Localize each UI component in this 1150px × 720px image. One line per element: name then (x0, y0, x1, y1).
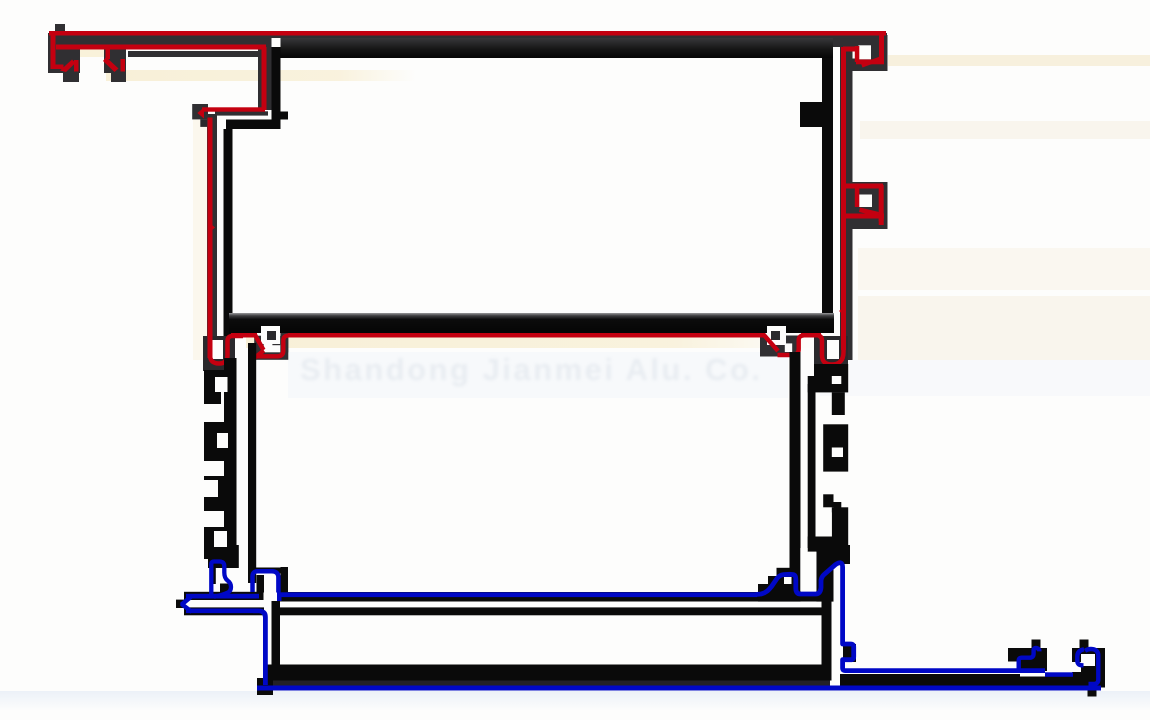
small square above band left (55, 24, 65, 34)
inner red line under band (126, 45, 266, 50)
right mid hook notch (859, 195, 873, 208)
hook2 right strip (281, 567, 289, 593)
left dip dark square (272, 336, 280, 345)
step left end dark block (192, 104, 208, 119)
sill top band right segment (279, 592, 830, 602)
right dip dark square (775, 336, 785, 344)
right plus-stub (823, 494, 833, 507)
left gasket mass notch (215, 377, 228, 392)
right white sq2 (832, 448, 843, 458)
faint beige wash right middle (858, 248, 1150, 290)
right lower block (832, 507, 848, 536)
dark gray frame cores (48, 24, 888, 371)
cap hook 2 foot (111, 73, 126, 82)
light blue wash under middle bar (288, 352, 788, 398)
beige strip under top-left inner red line (106, 70, 416, 81)
middle bar notch left (261, 326, 280, 344)
hook2 top black (248, 568, 288, 574)
right hook 1 tab (1032, 640, 1041, 649)
white channel above dip (800, 548, 807, 591)
faint beige patch right upper (860, 121, 1150, 139)
left cap red vertical (51, 33, 56, 69)
cap hook 2 (104, 46, 126, 73)
right big block (823, 424, 848, 471)
right row2 bar left bit (808, 384, 815, 392)
right mid squiggle blob (814, 336, 848, 367)
left sash bottom mass (208, 545, 239, 568)
bottom-right mass top (816, 545, 850, 564)
right hook 2 blue S right vertical (1085, 649, 1098, 684)
right dip squiggle (764, 335, 804, 356)
left mid squiggle blob (203, 336, 235, 371)
left cap column (48, 33, 61, 73)
right frame red wall (841, 47, 846, 350)
right mid hook outer vertical (879, 185, 884, 221)
sill black (176, 548, 1105, 697)
right mid hook diagonal (859, 208, 879, 217)
right hook 2 blue S left arc (1077, 649, 1084, 665)
step left arrow (197, 108, 204, 119)
dark strip under inner red line (128, 51, 268, 57)
left wall direction tick (208, 221, 216, 234)
right outer leg red stub (879, 216, 884, 225)
left dip squiggle (254, 334, 289, 358)
faint beige column left of red vertical (193, 112, 207, 360)
step box dark vertical (258, 47, 276, 110)
sill box blue left wall (253, 609, 268, 686)
left frame red wall (208, 118, 213, 359)
sash T bar (226, 120, 280, 130)
bottom sash columns (204, 343, 850, 602)
right top hook outer vertical (879, 33, 884, 63)
inner red line over cap (56, 45, 130, 50)
right row1 mass (814, 364, 848, 392)
sash right wall (822, 58, 833, 328)
red frame outline (49, 31, 886, 365)
sill box right wall (822, 601, 832, 681)
right stub (832, 392, 845, 415)
right top hook notch left (855, 46, 860, 62)
right top hook red inner h (843, 47, 859, 52)
step red horizontal (202, 107, 265, 111)
hook2 red diagonal barb (103, 57, 119, 72)
long red line under middle bar (segments) (231, 333, 257, 338)
black square at box bottom-left corner (257, 678, 273, 695)
right mid hook dark (846, 182, 888, 229)
black inside S curl (220, 584, 231, 594)
sill box bottom bar (264, 665, 830, 681)
left gasket mass (204, 370, 235, 392)
beige strip under middle red line (246, 337, 816, 348)
right squiggle U (818, 336, 844, 365)
right full bar low (808, 537, 849, 552)
top band red line (49, 31, 886, 36)
svg-text:Shandong Jianmei Alu. Co.: Shandong Jianmei Alu. Co. (300, 352, 760, 387)
sash right tab (800, 102, 822, 127)
light blue strip at bottom (0, 691, 1150, 711)
hook1 red inner vertical (74, 60, 79, 72)
beige strip right of top band (888, 55, 1150, 66)
right white pocket low (816, 512, 832, 536)
sash left upper wall (272, 47, 281, 129)
hook2 red inner vertical (121, 59, 126, 72)
left squiggle white inset (212, 340, 223, 359)
right sash outer wall (790, 352, 801, 592)
sill upper band blue left (186, 594, 259, 599)
left dash block 4 (204, 527, 236, 559)
sill upper band left segment (184, 592, 264, 600)
sill top blue corner at box wall (277, 592, 282, 601)
sill beak blue chevron (180, 594, 193, 613)
right wall direction tick (839, 305, 846, 317)
sill box bottom fade (264, 681, 830, 687)
right inner left strip (808, 376, 816, 552)
step dark horizontal (215, 111, 268, 115)
right dip dark surround (760, 336, 800, 357)
head frame top band (dark core) (48, 33, 887, 47)
sill left flap (184, 607, 264, 615)
sill flap blue line (186, 609, 258, 614)
right dip white notch 2 (785, 343, 792, 352)
middle bar notch right (767, 326, 786, 345)
left dash block 2 (204, 422, 236, 461)
sash top bar (277, 38, 833, 58)
left squiggle U (210, 336, 243, 364)
right mid hook bottom (844, 214, 884, 219)
hook2 left strip (257, 575, 265, 593)
right hook 1 blue (1019, 648, 1040, 673)
right top hook dark (871, 35, 888, 71)
right outer leg stub (875, 219, 888, 230)
middle bar (229, 313, 834, 333)
pocket left strip (212, 558, 216, 584)
right hook 2 inner white (1081, 654, 1095, 666)
sash bottom left loop 1 (211, 562, 231, 598)
staircase notch (784, 577, 792, 584)
left dip dark surround (254, 336, 288, 360)
left sash inner wall (248, 343, 256, 583)
left dash block 1 (204, 392, 221, 404)
right top hook bottom (856, 60, 884, 65)
right hook 1 (1008, 648, 1047, 671)
white slot right of box wall (834, 568, 840, 676)
sill left beak stub (176, 600, 185, 608)
sill top blue line right (277, 592, 757, 597)
sill blue outline (180, 562, 1101, 691)
sill fin tab (843, 644, 856, 662)
left dip white notch (264, 326, 281, 352)
sill box top bar (272, 607, 830, 615)
sill blue bottom line (257, 686, 1101, 691)
sill staircase step 3 (777, 568, 792, 602)
right frame wall dark (840, 44, 853, 360)
black under dip (792, 592, 801, 602)
white gap in band above sash wall (272, 38, 281, 47)
sash bottom left loop 2 (253, 571, 279, 592)
band blue line between hooks (1045, 672, 1073, 677)
sill bump-fin blue path (756, 563, 1045, 671)
right hook 2 notch (1072, 662, 1081, 672)
left sash outer wall (224, 358, 237, 548)
sash left long wall (224, 129, 233, 336)
sill staircase step 1 (758, 584, 768, 602)
right white sq1 (832, 376, 842, 384)
right top hook notch (859, 45, 872, 59)
sash T tab (281, 112, 289, 120)
left frame wall dark (207, 114, 217, 360)
cap hook 1 (61, 46, 80, 73)
sill box left wall (272, 601, 281, 681)
right hook 2 tab (1080, 640, 1089, 649)
right hook 2 (1072, 648, 1105, 688)
hook1 red diagonal barb (60, 60, 76, 73)
right mid hook notch left (855, 188, 860, 207)
right dip white notch 1 (768, 326, 785, 344)
sill staircase step 2 (768, 576, 777, 602)
beige pocket in cap (61, 45, 125, 57)
right hook 1 notch (1008, 662, 1017, 673)
left dash block 3 (204, 476, 236, 511)
right mid hook top (843, 184, 883, 189)
cap hook 1 foot (63, 73, 79, 82)
right top hook diagonal (861, 57, 882, 68)
hook2 red top-left drop (106, 47, 111, 59)
bottom band right of fin (840, 674, 1020, 687)
black profiles (224, 38, 835, 345)
bottom-right mass lower (816, 564, 833, 602)
step red vertical (262, 47, 267, 110)
black square below hook 2 (1088, 688, 1097, 697)
right squiggle white inset (827, 340, 839, 359)
left cap red bottom corner (51, 65, 64, 70)
